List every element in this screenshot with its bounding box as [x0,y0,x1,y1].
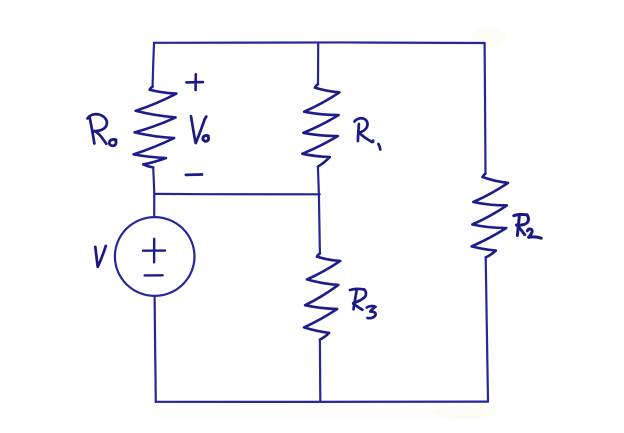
label R0 [90,117,95,144]
resistor R1 [302,84,339,167]
wire R0 to mid node [153,167,154,193]
wire mid node to R3 [319,194,320,253]
wire left column top [153,43,155,87]
wire middle column top [317,43,319,84]
wire mid rail [154,193,319,196]
wire node to source top [153,194,155,217]
label V0 [191,116,196,143]
resistor R3 [304,254,340,340]
wire top rail [154,41,485,44]
voltage source plus sign [143,239,165,263]
resistor R2 [472,174,508,258]
paper smudge bottom strip [155,409,485,418]
wire R3 to bottom rail [319,340,322,402]
wire bottom rail [156,400,488,403]
voltage source minus sign [145,274,163,277]
label R3 [350,289,364,290]
wire source bottom to bottom rail [155,296,156,402]
paper smudge top right [472,27,506,47]
label R2 [514,214,527,215]
label plus of V0 [186,74,203,90]
wire right column top [484,43,487,174]
wire R1 to mid node [318,167,319,195]
paper smudge bottom right [434,405,502,419]
voltage source V circle [115,217,195,296]
label minus of V0 [186,173,202,176]
label V source [95,247,97,267]
wire R2 to bottom rail [486,257,488,401]
resistor R0 [134,87,177,168]
label R1 [355,118,368,132]
